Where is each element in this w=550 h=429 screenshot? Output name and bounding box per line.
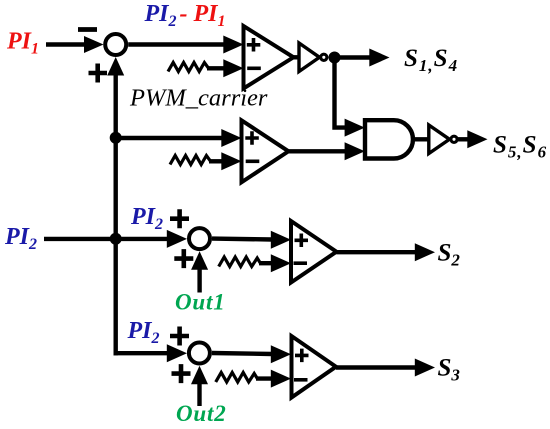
PWM carrier sawtooth into C1 minus input xyxy=(168,59,244,77)
label PWM_carrier xyxy=(129,85,268,112)
svg-text:Out1: Out1 xyxy=(175,290,226,315)
wire C3 output to S2 xyxy=(337,243,436,261)
junction dot D2 on PI2 bus xyxy=(110,233,122,245)
wire node Q1 down to AND gate G1 top input xyxy=(335,58,365,137)
output label S3 xyxy=(438,355,461,385)
summing junction SJ3 xyxy=(189,343,210,364)
node label PI2 above SJ3 xyxy=(127,318,160,347)
output label S1,S4 xyxy=(404,45,458,75)
summing junction SJ2 xyxy=(189,228,210,249)
wire SJ2 to comparator C3 plus input xyxy=(212,231,291,249)
output label S5,S6 xyxy=(493,132,547,162)
plus sign at SJ1 bottom input xyxy=(89,64,108,83)
input label PI1 xyxy=(6,29,39,58)
plus sign at SJ2 left input xyxy=(170,209,189,228)
wire PI2 vertical bus xyxy=(113,73,117,355)
node label PI2 above SJ2 xyxy=(130,204,163,233)
comparator C3 xyxy=(291,221,337,283)
minus sign at SJ1 top input xyxy=(78,27,97,32)
sawtooth into C3 minus input xyxy=(219,254,291,272)
comparator C2 xyxy=(242,120,289,182)
plus sign at SJ3 bottom input xyxy=(172,364,191,383)
node label PI2 - PI1 xyxy=(144,1,226,30)
input label Out1 xyxy=(175,290,226,315)
input label Out2 xyxy=(176,401,227,426)
NOT gate N1 xyxy=(299,43,327,72)
wire SJ1 to comparator C1 plus input xyxy=(128,36,243,54)
wire C1 output to NOT gate N1 xyxy=(294,55,301,59)
comparator C1 xyxy=(244,26,294,89)
wire bus D1 to comparator C2 plus input xyxy=(116,129,242,147)
arrow PI2 bus into SJ1 bottom xyxy=(107,57,124,76)
junction dot node Q1 xyxy=(329,52,341,64)
AND gate G1 xyxy=(365,120,413,158)
sawtooth into C4 minus input xyxy=(216,370,291,388)
output label S2 xyxy=(438,240,461,270)
plus sign at SJ3 left input xyxy=(170,327,189,346)
junction dot D1 on PI2 bus xyxy=(110,132,122,144)
wire PI2 to summing junction SJ2 xyxy=(44,230,187,248)
sawtooth into C2 minus input xyxy=(170,152,242,170)
wire Out1 up into SJ2 xyxy=(191,251,208,292)
wire C4 output to S3 xyxy=(336,359,435,377)
wire C2 output to AND gate G1 bottom input xyxy=(289,142,365,160)
wire node Q1 to output S1,S4 xyxy=(335,49,390,67)
wire bus elbow to summing junction SJ3 xyxy=(114,344,188,362)
wire PI1 to summing junction SJ1 xyxy=(46,36,104,53)
wire Out2 up into SJ3 xyxy=(191,366,208,406)
NOT gate N2 xyxy=(429,125,457,154)
svg-text:Out2: Out2 xyxy=(176,401,227,426)
wire SJ3 to comparator C4 plus input xyxy=(212,345,291,363)
summing junction SJ1 xyxy=(105,34,126,55)
input label PI2 xyxy=(4,224,37,253)
wire N2 to output S5,S6 xyxy=(457,130,488,148)
svg-text:-: - xyxy=(180,1,188,27)
plus sign at SJ2 bottom input xyxy=(174,249,193,268)
wire G1 output to NOT gate N2 xyxy=(413,137,430,141)
comparator C4 xyxy=(292,336,337,398)
